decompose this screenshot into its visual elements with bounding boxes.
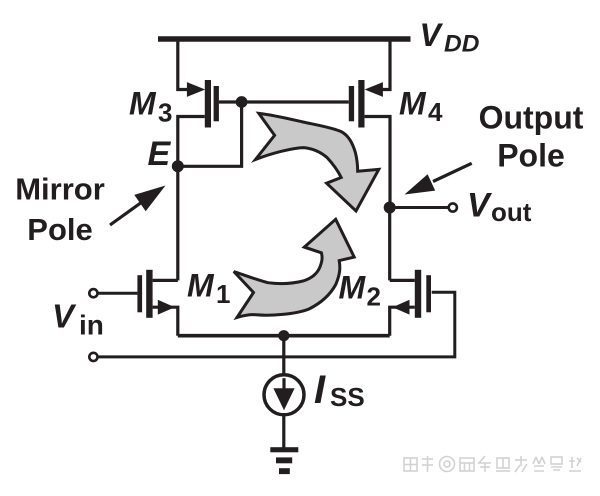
gate line M3-M4 [219,100,349,103]
tail wire (M1 source to M2 source) [178,334,390,338]
transistor M2 (NMOS, mirrored) [393,270,432,318]
svg-text:M: M [399,86,427,122]
svg-text:M: M [187,268,215,304]
M4 drain lead [365,117,390,210]
svg-text:E: E [148,135,172,173]
svg-text:out: out [491,197,532,227]
wire: VDD rail to M3 source [178,39,196,90]
svg-text:1: 1 [216,279,230,309]
wire: VDD rail to M4 source [372,39,390,90]
annotation arrow: direct signal path (lower gray arrow) [234,219,354,317]
svg-text:I: I [314,368,326,412]
M2 gate wire to Vin- [98,292,455,357]
M2 source wire to tail [390,307,415,336]
wire: output node down to M2 drain [388,208,391,281]
transistor M3 (PMOS) [187,80,219,128]
svg-text:Output: Output [479,99,584,135]
wire: node E down to M1 drain [176,166,179,280]
ground [270,447,298,474]
svg-text:M: M [339,270,367,306]
VDD rail [158,36,411,42]
M1 drain lead [153,279,178,282]
node E dot [172,160,184,172]
wire: current source to ground [282,415,285,448]
svg-text:Pole: Pole [27,212,92,247]
wire: output node to Vout terminal [390,206,448,209]
input terminal Vin+ (open circle) [89,289,97,297]
svg-text:DD: DD [444,31,479,58]
transistor M1 (NMOS) [137,270,174,318]
svg-text:V: V [420,17,444,53]
annotation arrow: mirror signal path (upper gray arrow) [256,113,379,211]
svg-text:SS: SS [330,382,365,412]
current source ISS [264,375,304,415]
M1 gate lead [98,292,137,295]
svg-text:V: V [467,187,493,225]
mirror pole pointer arrow [110,186,166,226]
wire: diode connection gate to node E [178,102,242,166]
wire: tail node to current source [282,336,285,376]
tail node dot [278,330,289,341]
input terminal Vin- (open circle) [89,353,97,361]
M1 source wire to tail [153,307,178,336]
svg-text:4: 4 [428,97,443,127]
transistor M4 (PMOS) [349,80,383,128]
svg-text:V: V [52,297,77,334]
svg-text:Pole: Pole [497,138,565,174]
Vout terminal (open circle) [449,203,457,211]
svg-text:M: M [129,86,157,122]
M3 drain lead [178,117,205,169]
watermark: 知乎 @而今迈步从头越 (vector mock) [404,456,581,472]
output node dot [384,202,396,214]
svg-text:Mirror: Mirror [15,172,105,207]
svg-text:in: in [79,310,104,341]
output pole pointer arrow [405,163,472,194]
M2 drain lead [390,279,415,282]
svg-text:2: 2 [367,282,381,312]
junction dot: gate tie [236,96,248,108]
svg-text:3: 3 [158,97,172,127]
